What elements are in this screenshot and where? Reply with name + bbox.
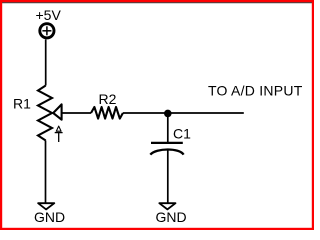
svg-text:+5V: +5V <box>36 7 62 23</box>
svg-text:C1: C1 <box>173 126 191 142</box>
ground symbol (left) <box>38 203 54 209</box>
R1 wiper arrow (open triangle) <box>53 104 61 119</box>
wire R2 to junction <box>123 112 168 114</box>
R1 adjustment arrow <box>55 126 63 142</box>
svg-text:R2: R2 <box>99 91 117 107</box>
GND label (left) <box>34 209 65 225</box>
TO A/D INPUT label <box>208 83 303 99</box>
power terminal circle <box>40 24 54 38</box>
wire C1 to ground <box>167 150 169 203</box>
wire junction to A/D output <box>168 112 244 114</box>
svg-text:R1: R1 <box>13 96 31 112</box>
dark line under top border <box>0 2 314 4</box>
R2 label <box>99 91 117 107</box>
capacitor C1 top plate <box>151 142 183 144</box>
svg-text:GND: GND <box>34 209 65 225</box>
svg-text:TO A/D INPUT: TO A/D INPUT <box>208 83 303 99</box>
GND label (right) <box>156 209 187 225</box>
ground symbol (right) <box>159 203 175 209</box>
svg-text:GND: GND <box>156 209 187 225</box>
C1 label <box>173 126 191 142</box>
wire +5V to R1 top <box>45 40 47 86</box>
R1 label <box>13 96 31 112</box>
+5V label <box>36 7 62 23</box>
wire junction down to C1 <box>167 113 169 142</box>
potentiometer R1 body (zigzag) <box>38 86 52 141</box>
wire R1 bottom to ground <box>45 141 47 204</box>
capacitor C1 bottom plate (curved) <box>150 150 183 155</box>
wire wiper to R2 <box>61 112 91 114</box>
node junction dot <box>164 110 172 118</box>
resistor R2 (zigzag) <box>91 107 123 119</box>
